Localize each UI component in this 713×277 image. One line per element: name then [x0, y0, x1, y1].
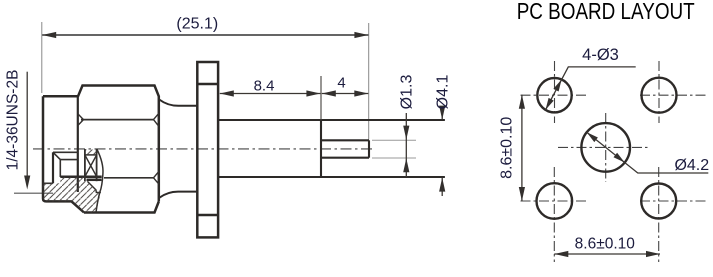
thread leader arrow: [24, 176, 30, 190]
svg-text:(25.1): (25.1): [176, 16, 218, 33]
svg-text:1/4-36UNS-2B: 1/4-36UNS-2B: [5, 70, 22, 171]
body: front cylinder outline: [43, 96, 84, 212]
thread leader line: [26, 72, 28, 178]
hex left edge: [77, 96, 79, 192]
svg-text:Ø4.1: Ø4.1: [435, 75, 452, 110]
label 4-D3 arrow upper: [553, 80, 561, 92]
hex facet chamfer marks top: [78, 113, 159, 126]
dim 8.4 extension line mid: [320, 76, 322, 120]
dim D4.1 arrow bottom: [439, 178, 445, 192]
pcb left dim arrow top: [519, 95, 525, 109]
centerline: [33, 148, 374, 150]
label 4-D3 leader: [546, 67, 636, 110]
pcb bottom dim arrow left: [554, 251, 568, 257]
hex silhouette bottom: [84, 202, 159, 213]
hatch: contact below slant: [85, 181, 96, 193]
section: contact thick line: [87, 179, 102, 182]
hatch: sliver above dielectric: [86, 150, 97, 155]
svg-text:Ø1.3: Ø1.3: [399, 75, 416, 110]
hole top-left centermarks: [521, 61, 587, 123]
dim D4.1 line top: [441, 113, 443, 120]
neck top curve: [159, 100, 196, 106]
hole bottom-left centermarks: [521, 167, 587, 262]
hatch: below socket: [60, 177, 85, 193]
neck bottom curve: [159, 192, 196, 198]
dim 8.4 arrow left: [220, 90, 234, 96]
label D4.2 leader: [587, 132, 709, 173]
dim (25.1) arrow left: [42, 32, 56, 38]
hole top-right centermarks: [640, 61, 706, 123]
svg-text:8.6±0.10: 8.6±0.10: [575, 236, 636, 253]
pin tip edge: [368, 140, 370, 157]
section: socket front edge: [52, 152, 54, 183]
center hole circle: [581, 123, 630, 172]
pcb bottom dim arrow right: [646, 251, 660, 257]
flange inner line top: [197, 83, 218, 86]
front cylinder top edge: [43, 95, 78, 98]
pcb bottom dim line: [554, 253, 660, 255]
hex silhouette top: [78, 86, 159, 97]
svg-text:8.4: 8.4: [254, 78, 275, 95]
dim (25.1) line: [42, 34, 368, 36]
hex facet line top: [81, 119, 154, 121]
hex facet chamfer marks bottom: [154, 172, 159, 185]
hole top-left circle: [537, 78, 571, 112]
svg-text:PC BOARD LAYOUT: PC BOARD LAYOUT: [517, 0, 695, 24]
flange inner line bottom: [197, 214, 218, 217]
section: dielectric wall right: [96, 149, 98, 181]
section: thread top line: [43, 182, 53, 184]
dim 8.4 line: [220, 93, 321, 95]
dim 4 arrow right: [354, 90, 368, 96]
dim 4 line: [322, 93, 369, 95]
section: dielectric top line: [85, 154, 97, 156]
section: break-out arc: [96, 149, 103, 212]
section: socket bore line: [60, 159, 78, 161]
hatch: bottom band: [43, 192, 101, 212]
svg-text:4-Ø3: 4-Ø3: [582, 46, 619, 64]
section: socket bottom thick line: [60, 175, 101, 178]
svg-text:4: 4: [337, 75, 345, 92]
pin D1.3 bottom: [321, 157, 369, 159]
dim D4.1 line bottom: [441, 178, 443, 196]
dim (25.1) arrow right: [354, 32, 368, 38]
cylinder D4.1 bottom edge + extension: [219, 176, 445, 178]
section: contact slant: [87, 181, 101, 192]
pin D1.3 top: [321, 139, 369, 141]
dim (25.1) extension line right: [368, 23, 370, 140]
pcb left dim line: [521, 95, 523, 201]
section: socket chamfer: [53, 152, 60, 159]
cylinder D4.1 top edge + extension: [219, 119, 445, 121]
dielectric X cross: [85, 155, 97, 177]
section: socket top line: [53, 151, 78, 153]
hex facet line bottom: [104, 177, 154, 179]
hole top-right circle: [642, 78, 677, 113]
section: socket bore wall: [59, 160, 61, 177]
hole bottom-left circle: [537, 183, 573, 219]
svg-text:Ø4.2: Ø4.2: [674, 157, 709, 174]
dim D1.3 arrow bottom: [403, 158, 409, 172]
thread extension line: [14, 192, 53, 194]
pcb left dim arrow bottom: [519, 187, 525, 201]
cylinder step face: [320, 120, 322, 177]
dim D1.3 line: [405, 113, 407, 177]
label D4.2 arrow lower: [614, 153, 625, 163]
section: dielectric wall left: [84, 149, 86, 181]
dim (25.1) extension line left: [41, 22, 43, 93]
hole bottom-right circle: [641, 184, 676, 219]
flange outline: [197, 62, 218, 237]
pin extension line top: [372, 139, 416, 141]
label 4-D3 arrow lower: [546, 98, 554, 110]
label D4.2 arrow upper: [587, 132, 598, 142]
dim D1.3 arrow top: [403, 126, 409, 140]
svg-text:8.6±0.10: 8.6±0.10: [499, 117, 516, 179]
dim D4.1 arrow top: [439, 106, 445, 120]
hatch: nut wall band: [43, 183, 79, 193]
pin extension line bottom: [372, 157, 416, 159]
hex right edge: [158, 97, 161, 202]
center hole centermarks: [558, 113, 648, 182]
dim 8.4 arrow right: [306, 90, 320, 96]
dim 4 arrow left: [322, 90, 336, 96]
hole bottom-right centermarks: [640, 167, 706, 262]
